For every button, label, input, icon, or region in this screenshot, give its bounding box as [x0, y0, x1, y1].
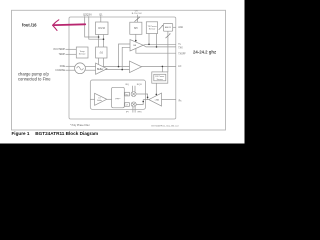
wire TX power sensor tap 1: [148, 34, 150, 45]
mixer I (circle with X): [131, 92, 136, 107]
block RX Power Sensor outer: [152, 72, 168, 83]
svg-text:IFIX: IFIX: [138, 112, 143, 114]
wire PA out TXX: [143, 45, 176, 47]
annotation fout./16: [18, 23, 216, 82]
op-amp LNA (points left): [149, 93, 162, 106]
chip boundary frame: [69, 17, 176, 119]
svg-text:fout./16: fout./16: [22, 23, 37, 28]
wire TX power sensor tap 2: [156, 34, 158, 47]
wire RX sensor to LNA: [155, 83, 157, 95]
svg-text:IFI: IFI: [126, 112, 129, 114]
wire LNA out stub: [143, 99, 149, 101]
svg-text:TXX: TXX: [178, 47, 183, 49]
svg-text:Buffer: Buffer: [97, 68, 103, 71]
wire TXOFF: [136, 48, 176, 53]
svg-text:DIV16: DIV16: [98, 27, 105, 30]
wire SPI to PA: [135, 34, 137, 42]
svg-text:connected to Fine: connected to Fine: [18, 76, 51, 81]
RX group box: [90, 80, 145, 109]
wire IFQ stubs up: [132, 86, 134, 92]
svg-text:RX Power: RX Power: [155, 76, 164, 78]
svg-text:LO: LO: [178, 66, 181, 68]
svg-text:AMUX: AMUX: [165, 26, 172, 29]
svg-text:Sensor: Sensor: [79, 53, 86, 56]
wire Q2N pin stub: [89, 16, 104, 39]
wire /16 to buffer left: [98, 58, 100, 65]
figure frame: [12, 10, 226, 130]
svg-text:TXOFF: TXOFF: [178, 53, 186, 55]
svg-text:Temp: Temp: [80, 51, 86, 53]
block DIV16: [96, 22, 109, 35]
op-amp buffer (VCO buffer): [96, 63, 107, 74]
svg-text:Sensor: Sensor: [157, 79, 164, 81]
svg-text:Sensor: Sensor: [149, 28, 156, 31]
block RX Power Sensor inner: [154, 74, 166, 81]
block AMUX: [163, 23, 172, 31]
wire VCO to buffer pair: [85, 65, 95, 67]
block /16: [96, 47, 107, 58]
wire Q2 pin stub: [85, 16, 99, 37]
switch slash TXPS to AMUX: [159, 25, 163, 30]
svg-text:0°: 0°: [126, 105, 128, 107]
wire LO buffer in: [90, 98, 94, 100]
annotation magenta arrow: [53, 20, 86, 31]
svg-text:IFQX: IFQX: [137, 84, 143, 86]
block 90deg: [125, 92, 130, 96]
wire COARSE: [66, 69, 76, 71]
mixer Q (circle with X): [131, 102, 136, 107]
op-amp LO buffer (RX): [95, 93, 107, 105]
wire DIV16 to /16 left: [98, 35, 100, 48]
block SPI: [130, 22, 142, 34]
svg-text:FINE: FINE: [60, 66, 66, 68]
svg-text:SPI: SPI: [134, 27, 138, 30]
wire LO buffer to PPF: [107, 98, 112, 100]
white document page: [0, 0, 245, 144]
wire IFI stubs down: [132, 107, 134, 113]
block & pin texts: [53, 10, 186, 127]
svg-text:Buffer: Buffer: [97, 100, 102, 102]
svg-text:* Poly Phase Filter: * Poly Phase Filter: [70, 124, 90, 127]
block 0deg: [125, 103, 130, 107]
wire TEMP: [66, 53, 77, 55]
wire SPI top: [137, 15, 139, 22]
svg-text:90°: 90°: [126, 94, 129, 96]
block PPF: [112, 87, 125, 108]
wire LO up-left to PA: [119, 44, 131, 67]
wire LO output: [142, 65, 176, 67]
svg-text:BGT24ATR11_Chp_Blk.vsd: BGT24ATR11_Chp_Blk.vsd: [151, 125, 179, 128]
switch slash above SPI: [135, 17, 171, 38]
wire Q1 pin stub: [100, 16, 102, 22]
svg-text:B CS CLK: B CS CLK: [132, 13, 143, 15]
wire VCC/TEMP: [66, 48, 77, 50]
wire LO up-right to PA: [122, 47, 130, 69]
op-amp LO output buffer: [130, 61, 142, 73]
caption Figure 1: [12, 131, 99, 136]
svg-text:LNA: LNA: [155, 99, 160, 102]
wire LNA to mixer Q: [136, 100, 143, 105]
svg-text:TX Power: TX Power: [147, 25, 156, 28]
wire AMUX to ANA pin: [173, 26, 176, 28]
switch slash below AMUX: [166, 34, 171, 38]
wire /16 to buffer right: [103, 58, 105, 67]
block TX Power Sensor: [146, 22, 157, 34]
svg-text:Figure 1: Figure 1: [12, 131, 30, 136]
wire DIV16 to /16 right: [103, 35, 105, 48]
svg-text:Q1: Q1: [99, 12, 103, 16]
svg-text:IFQ: IFQ: [125, 84, 129, 86]
wire AMUX down: [167, 31, 169, 72]
svg-text:VCC/TEMP: VCC/TEMP: [53, 49, 65, 51]
svg-text:ANA: ANA: [178, 26, 183, 29]
black background: [0, 0, 320, 184]
junction dots: [98, 36, 163, 102]
svg-text:BGT24ATR11 Block Diagram: BGT24ATR11 Block Diagram: [35, 131, 98, 136]
svg-text:PPF*: PPF*: [115, 98, 120, 100]
VCO oscillator circle: [75, 63, 86, 74]
wire LO tap to RX power sensor: [161, 66, 163, 72]
wire LNA to mixer I: [136, 94, 148, 100]
wire RX input: [162, 99, 176, 101]
svg-text:COARSE: COARSE: [55, 69, 65, 72]
block Temp Sensor: [76, 47, 88, 58]
svg-text:Q2N: Q2N: [86, 12, 91, 16]
wire FINE: [66, 65, 76, 67]
op-amp PA: [130, 40, 143, 52]
wire buffer out lower: [105, 69, 129, 71]
svg-text:TEMP: TEMP: [59, 54, 66, 56]
wire buffer out upper: [103, 66, 130, 68]
svg-text:24-24.2 ghz: 24-24.2 ghz: [193, 49, 216, 54]
wire PA out TX: [143, 43, 176, 46]
